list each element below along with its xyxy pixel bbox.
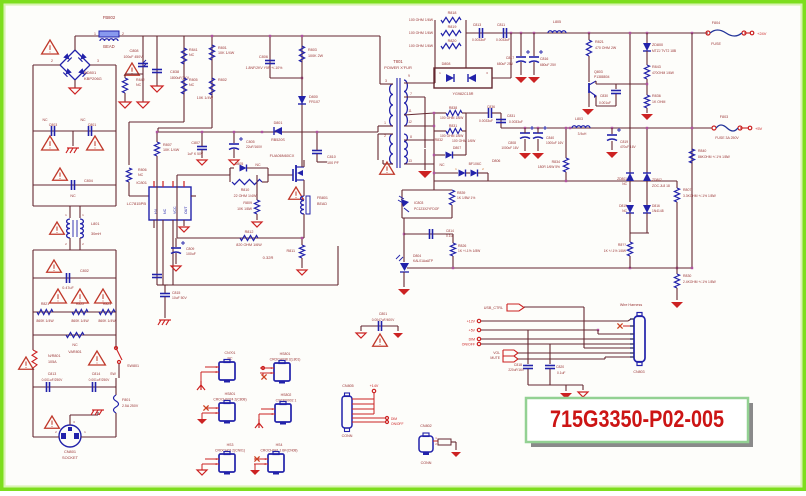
svg-text:C810: C810 — [327, 155, 336, 159]
svg-text:820 OHM 1/6W: 820 OHM 1/6W — [236, 243, 262, 247]
svg-text:R843: R843 — [652, 65, 661, 69]
svg-text:KBP206G: KBP206G — [84, 76, 102, 81]
svg-text:R818: R818 — [448, 11, 457, 15]
svg-text:R823: R823 — [103, 302, 111, 306]
svg-text:13: 13 — [408, 159, 412, 163]
svg-text:L803: L803 — [575, 117, 583, 121]
svg-text:BEAD: BEAD — [103, 44, 114, 49]
svg-text:R838: R838 — [449, 106, 457, 110]
svg-text:D801: D801 — [274, 121, 283, 125]
svg-text:FUSE 3A 250V: FUSE 3A 250V — [715, 136, 739, 140]
svg-text:10K 1/4W: 10K 1/4W — [163, 148, 180, 152]
svg-text:DIM: DIM — [391, 417, 397, 421]
svg-text:N/R801: N/R801 — [48, 354, 61, 358]
svg-text:+5V: +5V — [755, 126, 763, 131]
svg-text:T801: T801 — [393, 59, 403, 64]
svg-text:R805: R805 — [189, 78, 198, 82]
svg-text:R820: R820 — [448, 39, 457, 43]
svg-text:C805: C805 — [246, 140, 255, 144]
svg-text:100 OHM 1/6W: 100 OHM 1/6W — [409, 31, 434, 35]
svg-text:0.001uF/250V: 0.001uF/250V — [42, 378, 64, 382]
svg-text:Q803: Q803 — [594, 70, 603, 74]
svg-text:SW801: SW801 — [127, 364, 139, 368]
svg-text:12: 12 — [408, 120, 412, 124]
svg-text:C820: C820 — [556, 365, 564, 369]
svg-text:FR107: FR107 — [309, 100, 320, 104]
svg-text:3: 3 — [385, 79, 387, 83]
svg-text:NC: NC — [70, 194, 76, 198]
svg-text:R807: R807 — [683, 188, 691, 192]
svg-text:ZD801: ZD801 — [617, 177, 627, 181]
svg-text:1K +/-1% 1/8W: 1K +/-1% 1/8W — [458, 249, 481, 253]
svg-text:0.1uF: 0.1uF — [557, 371, 565, 375]
svg-text:2.5A 250V: 2.5A 250V — [122, 404, 139, 408]
svg-text:2: 2 — [122, 32, 124, 36]
svg-text:ZOC.JL8 18: ZOC.JL8 18 — [652, 184, 670, 188]
svg-text:OUT: OUT — [184, 206, 188, 214]
svg-text:7: 7 — [410, 92, 412, 96]
svg-text:D800: D800 — [309, 95, 318, 99]
svg-text:ZD802: ZD802 — [652, 178, 662, 182]
svg-text:C840: C840 — [546, 136, 554, 140]
svg-text:C803: C803 — [49, 123, 58, 127]
svg-text:NC: NC — [189, 53, 195, 57]
svg-text:C811: C811 — [497, 23, 505, 27]
svg-text:1000uF 16V: 1000uF 16V — [546, 141, 564, 145]
svg-text:CN803: CN803 — [633, 370, 644, 374]
svg-text:R802: R802 — [218, 78, 227, 82]
svg-text:30mH: 30mH — [91, 232, 101, 236]
svg-text:0.001uF/250V: 0.001uF/250V — [89, 378, 111, 382]
svg-text:470 OHM 2W: 470 OHM 2W — [595, 46, 617, 50]
svg-text:R810: R810 — [241, 188, 250, 192]
svg-text:C813: C813 — [473, 23, 481, 27]
svg-text:R831: R831 — [449, 124, 457, 128]
svg-text:BEAD: BEAD — [317, 202, 327, 206]
svg-text:+12V: +12V — [467, 320, 476, 324]
svg-text:860K 1/4W: 860K 1/4W — [98, 319, 116, 323]
svg-text:C814: C814 — [446, 229, 454, 233]
svg-text:NC: NC — [72, 343, 78, 347]
svg-text:CONN: CONN — [421, 461, 432, 465]
svg-text:680uF 25V: 680uF 25V — [540, 63, 557, 67]
svg-text:3.3KOHM +/-1% 1/8W: 3.3KOHM +/-1% 1/8W — [683, 194, 717, 198]
svg-text:3.9uH: 3.9uH — [578, 132, 587, 136]
svg-text:NC: NC — [439, 163, 445, 167]
svg-text:100 OHM 1/6W: 100 OHM 1/6W — [409, 44, 434, 48]
svg-text:F803: F803 — [720, 115, 728, 119]
svg-text:F804: F804 — [712, 21, 720, 25]
svg-text:P1388804: P1388804 — [594, 75, 610, 79]
svg-text:L805: L805 — [553, 20, 561, 24]
svg-text:1K +/-1% 1/8W: 1K +/-1% 1/8W — [604, 249, 627, 253]
svg-text:1uF K 50V: 1uF K 50V — [187, 152, 203, 156]
svg-text:VCC: VCC — [173, 206, 177, 214]
svg-text:VOL: VOL — [493, 351, 500, 355]
svg-text:USB_CTRL: USB_CTRL — [484, 306, 503, 310]
svg-text:+5V: +5V — [469, 329, 476, 333]
svg-text:C815: C815 — [172, 291, 180, 295]
svg-text:ZD800: ZD800 — [652, 43, 663, 47]
svg-text:0.0047uF/400V: 0.0047uF/400V — [372, 318, 395, 322]
svg-text:PC123X2YFDOF: PC123X2YFDOF — [414, 207, 439, 211]
svg-text:R801: R801 — [218, 46, 227, 50]
svg-text:1.8NF/2KV Y5P +/-10%: 1.8NF/2KV Y5P +/-10% — [246, 66, 283, 70]
svg-text:1000uF 16V: 1000uF 16V — [501, 146, 519, 150]
svg-text:C813: C813 — [48, 372, 57, 376]
svg-text:11: 11 — [408, 109, 412, 113]
svg-text:860K 1/4W: 860K 1/4W — [36, 319, 54, 323]
svg-text:C830: C830 — [600, 94, 608, 98]
svg-text:VAR801: VAR801 — [68, 350, 81, 354]
svg-text:9: 9 — [408, 74, 410, 78]
svg-text:100uF 450V: 100uF 450V — [123, 55, 143, 59]
svg-text:10K 1/4W: 10K 1/4W — [218, 51, 235, 55]
svg-text:1K OHM: 1K OHM — [652, 100, 666, 104]
svg-text:C801: C801 — [379, 312, 387, 316]
svg-text:MUTE: MUTE — [490, 356, 500, 360]
svg-text:R806: R806 — [138, 168, 147, 172]
svg-text:10K 1/8W: 10K 1/8W — [237, 207, 253, 211]
svg-text:R822: R822 — [76, 302, 84, 306]
svg-text:1N4148: 1N4148 — [652, 209, 664, 213]
svg-text:470OHM 1/6W: 470OHM 1/6W — [652, 71, 675, 75]
svg-text:22uF/160V: 22uF/160V — [246, 145, 263, 149]
svg-text:100 OHM 1/6W: 100 OHM 1/6W — [409, 18, 434, 22]
svg-text:R834: R834 — [552, 160, 560, 164]
svg-text:LC7815PB: LC7815PB — [127, 201, 147, 206]
svg-text:1: 1 — [94, 32, 96, 36]
svg-text:1: 1 — [384, 121, 386, 125]
svg-text:HS4: HS4 — [276, 443, 283, 447]
svg-text:220uF/16V: 220uF/16V — [508, 368, 524, 372]
svg-text:HS3: HS3 — [227, 443, 234, 447]
svg-text:0.0033uF: 0.0033uF — [509, 120, 523, 124]
svg-text:D805: D805 — [235, 162, 244, 166]
svg-text:FUSE: FUSE — [711, 42, 721, 46]
svg-text:Wire Harness: Wire Harness — [620, 303, 642, 307]
svg-text:1K 1/8W 1%: 1K 1/8W 1% — [457, 196, 475, 200]
svg-text:C818: C818 — [514, 363, 522, 367]
svg-text:R840: R840 — [698, 149, 706, 153]
svg-text:HS802: HS802 — [281, 393, 292, 397]
svg-text:C816: C816 — [540, 57, 548, 61]
svg-text:2.4KOHM +/-1% 1/8W: 2.4KOHM +/-1% 1/8W — [683, 280, 717, 284]
svg-text:22 OHM 1/4W: 22 OHM 1/4W — [234, 194, 257, 198]
svg-text:NC: NC — [80, 118, 86, 122]
svg-text:R841: R841 — [189, 48, 198, 52]
svg-text:RB520S: RB520S — [271, 138, 285, 142]
svg-text:105A: 105A — [48, 360, 57, 364]
svg-text:8: 8 — [410, 135, 412, 139]
svg-text:C836: C836 — [487, 105, 495, 109]
svg-text:R826: R826 — [458, 244, 466, 248]
svg-text:0.0033uF: 0.0033uF — [479, 119, 493, 123]
svg-text:IC801: IC801 — [136, 180, 147, 185]
svg-text:SOCKET: SOCKET — [62, 455, 79, 460]
svg-text:NC: NC — [42, 118, 48, 122]
svg-text:CN802: CN802 — [420, 424, 431, 428]
svg-text:680uF 25V: 680uF 25V — [497, 62, 514, 66]
svg-text:R803: R803 — [308, 48, 317, 52]
svg-text:C801: C801 — [88, 123, 97, 127]
svg-text:0.1u: 0.1u — [446, 234, 453, 238]
svg-text:C808: C808 — [129, 49, 138, 53]
svg-text:100 OHM 1/6W: 100 OHM 1/6W — [452, 139, 476, 143]
svg-text:ON/OFF: ON/OFF — [462, 343, 475, 347]
svg-text:2: 2 — [51, 59, 53, 63]
svg-text:ON/OFF: ON/OFF — [391, 422, 403, 426]
svg-text:KAL01AaATP: KAL01AaATP — [413, 259, 434, 263]
svg-text:NC: NC — [255, 163, 261, 167]
svg-text:CN?01: CN?01 — [225, 351, 236, 355]
svg-text:R809: R809 — [243, 201, 252, 205]
svg-text:D807: D807 — [453, 146, 461, 150]
svg-text:L801: L801 — [91, 222, 99, 226]
svg-text:NC: NC — [136, 83, 142, 87]
svg-text:R811: R811 — [286, 249, 295, 253]
svg-text:YG982C15R: YG982C15R — [453, 92, 474, 96]
svg-text:HS801: HS801 — [280, 352, 291, 356]
svg-text:FB802: FB802 — [103, 15, 116, 20]
svg-text:100 OHM 1/6W: 100 OHM 1/6W — [440, 134, 464, 138]
svg-text:C808: C808 — [508, 141, 516, 145]
svg-text:NC: NC — [622, 209, 627, 213]
svg-text:SW: SW — [110, 372, 116, 376]
svg-text:C814: C814 — [92, 372, 101, 376]
svg-text:R819: R819 — [448, 25, 457, 29]
svg-text:C819: C819 — [620, 140, 628, 144]
svg-text:POWER X'FUR: POWER X'FUR — [384, 65, 412, 70]
svg-text:BF106C: BF106C — [469, 162, 482, 166]
svg-text:100K 2W: 100K 2W — [308, 54, 324, 58]
svg-text:C831: C831 — [507, 114, 515, 118]
svg-text:470uF 16V: 470uF 16V — [620, 145, 636, 149]
svg-text:F801: F801 — [122, 398, 130, 402]
svg-text:0.0033uF: 0.0033uF — [472, 38, 486, 42]
svg-text:0.47uF: 0.47uF — [62, 286, 74, 290]
svg-text:180R 1/6W 5%: 180R 1/6W 5% — [538, 165, 560, 169]
svg-text:DIM: DIM — [469, 338, 476, 342]
svg-text:860K 1/4W: 860K 1/4W — [71, 319, 89, 323]
svg-text:C838: C838 — [170, 70, 179, 74]
svg-text:C804: C804 — [84, 179, 93, 183]
svg-text:R842: R842 — [136, 78, 145, 82]
svg-text:R807: R807 — [163, 143, 172, 147]
svg-text:0.32R: 0.32R — [263, 255, 274, 260]
svg-text:D806: D806 — [492, 159, 500, 163]
svg-text:C817: C817 — [506, 56, 514, 60]
svg-text:R839: R839 — [457, 191, 465, 195]
svg-text:R812: R812 — [245, 230, 254, 234]
svg-text:R821: R821 — [595, 40, 604, 44]
svg-text:FUA06N60CX: FUA06N60CX — [270, 153, 295, 158]
svg-text:86KOHM +/-1% 1/8W: 86KOHM +/-1% 1/8W — [698, 155, 731, 159]
svg-text:CONN: CONN — [342, 434, 353, 438]
svg-text:BD801: BD801 — [84, 70, 97, 75]
svg-text:CN805: CN805 — [342, 384, 353, 388]
svg-text:R821: R821 — [41, 302, 49, 306]
svg-text:C807: C807 — [191, 141, 200, 145]
svg-text:R836: R836 — [652, 94, 661, 98]
svg-text:100 PF: 100 PF — [327, 161, 340, 165]
svg-text:NC: NC — [189, 83, 195, 87]
svg-text:NC: NC — [138, 173, 144, 177]
svg-text:CN801: CN801 — [64, 449, 76, 454]
svg-text:R832: R832 — [435, 138, 443, 142]
svg-text:C809: C809 — [186, 247, 194, 251]
svg-text:D808: D808 — [442, 62, 451, 66]
svg-text:C806: C806 — [259, 55, 268, 59]
svg-text:+24V: +24V — [757, 31, 767, 36]
svg-text:10K 1/4W: 10K 1/4W — [197, 96, 214, 100]
svg-text:NC: NC — [622, 182, 627, 186]
svg-text:D804: D804 — [413, 254, 421, 258]
svg-text:R8??: R8?? — [618, 243, 626, 247]
svg-text:HS801: HS801 — [225, 392, 236, 396]
svg-text:IC803: IC803 — [414, 201, 423, 205]
svg-text:2: 2 — [384, 134, 386, 138]
svg-text:R830: R830 — [683, 274, 691, 278]
svg-text:100 OHM 1/6W: 100 OHM 1/6W — [440, 116, 464, 120]
svg-text:3: 3 — [97, 59, 99, 63]
svg-text:D816: D816 — [652, 204, 660, 208]
svg-text:715G3350-P02-005: 715G3350-P02-005 — [550, 406, 724, 433]
svg-text:0.0033uF: 0.0033uF — [496, 38, 510, 42]
svg-text:10uF 50V: 10uF 50V — [172, 296, 187, 300]
svg-text:FB801: FB801 — [317, 196, 328, 200]
svg-text:C802: C802 — [80, 269, 89, 273]
svg-text:MTZJ TVT2 18B: MTZJ TVT2 18B — [652, 49, 677, 53]
svg-text:100uF: 100uF — [186, 252, 196, 256]
svg-text:NC: NC — [163, 208, 167, 214]
svg-text:D819: D819 — [619, 204, 627, 208]
svg-text:0.001uF: 0.001uF — [599, 101, 611, 105]
svg-text:+14V: +14V — [370, 384, 379, 388]
